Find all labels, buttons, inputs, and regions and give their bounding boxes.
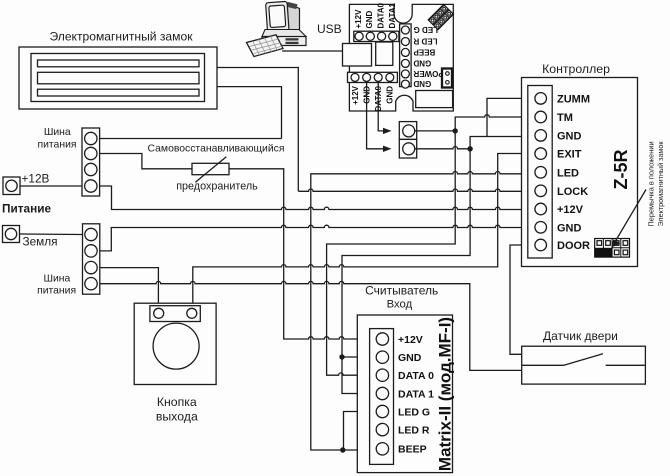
svg-text:Matrix-II (мод.MF-I): Matrix-II (мод.MF-I) [436, 317, 455, 471]
svg-text:DATA 0: DATA 0 [398, 370, 434, 382]
wire J2.GND down with arrow to plug X2 [367, 81, 384, 149]
exit button pusher [153, 323, 199, 369]
jumper note arrow [614, 190, 646, 244]
board edge connector J5 [442, 69, 452, 88]
wire bus1.c2 to fuse [100, 154, 192, 169]
svg-text:LED R: LED R [398, 424, 430, 436]
svg-text:+12V: +12V [354, 9, 363, 29]
wire +12V terminal to bus1 [20, 185, 82, 187]
svg-text:GND: GND [365, 11, 374, 29]
junction GND/X2 [467, 146, 472, 151]
svg-text:Шина: Шина [43, 274, 70, 285]
svg-text:Самовосстанавливающийся: Самовосстанавливающийся [148, 144, 285, 155]
controller Z-5R box [522, 78, 638, 267]
plug connector X2 (lower) [399, 139, 416, 158]
svg-text:DATA 1: DATA 1 [398, 388, 434, 400]
svg-text:LED G: LED G [398, 406, 430, 418]
computer (PC with monitor and keyboard) [247, 1, 307, 56]
controller pin labels [557, 93, 590, 252]
wire bus1.c1 rail [100, 138, 282, 140]
wire GND feed to controller GND [470, 137, 535, 149]
plug connector X1 (upper) [399, 122, 416, 140]
svg-text:Вход: Вход [387, 299, 413, 311]
svg-text:выхода: выхода [156, 409, 198, 423]
svg-text:LOCK: LOCK [557, 186, 588, 198]
svg-text:POWER: POWER [413, 69, 443, 78]
svg-text:Z-5R: Z-5R [611, 150, 631, 190]
USB adapter top pin header J1 [354, 31, 399, 41]
wire J2.DATA0 down with arrow to plug X1 [378, 81, 383, 131]
reader pin labels [398, 334, 434, 456]
svg-text:Электромагнитный замок: Электромагнитный замок [49, 30, 193, 44]
svg-text:+12V: +12V [398, 334, 423, 346]
svg-text:питания: питания [37, 140, 76, 151]
jumper block [595, 239, 630, 258]
power bus strip 2 [83, 224, 100, 294]
wire Zemlya terminal to bus2 [20, 233, 83, 236]
svg-text:GND: GND [398, 352, 422, 364]
right pin column J3 [400, 24, 412, 88]
junction TM/X1 [453, 128, 458, 133]
top header labels +12V GND DATA0 DATA1 [354, 2, 397, 28]
wire ZUMM wire [487, 98, 535, 136]
svg-text:DATA1: DATA1 [388, 2, 397, 28]
wire lock terminal B to power bus [217, 87, 282, 139]
wire X2 to GND [415, 146, 470, 148]
USB adapter board outline [349, 4, 453, 111]
wire LOCK rail [298, 189, 535, 191]
wire bus2.c3 to exit button [100, 268, 159, 306]
component U1 on board [376, 42, 393, 65]
svg-text:Питание: Питание [2, 202, 51, 216]
wire bus2.c2 to controller GND [100, 225, 535, 251]
svg-text:ZUMM: ZUMM [557, 93, 590, 105]
wire LED G to BEEP net [344, 412, 377, 451]
svg-text:+12V: +12V [351, 85, 360, 105]
svg-text:Кнопка: Кнопка [157, 395, 197, 409]
USB connector to computer [343, 44, 372, 67]
junction BEEP junction [340, 447, 345, 452]
svg-text:Контроллер: Контроллер [542, 62, 610, 76]
svg-text:+12V: +12V [557, 204, 584, 216]
wire computer to USB adapter [282, 50, 344, 52]
svg-text:GND: GND [413, 79, 431, 88]
Ground (Zemlya) terminal [3, 226, 20, 243]
wire bus2.c4 to door sensor [100, 281, 522, 370]
svg-text:LED: LED [557, 167, 579, 179]
svg-text:Шина: Шина [44, 127, 71, 138]
wire GND branch to DATA1 [342, 357, 376, 394]
exit button terminal strip [150, 306, 200, 322]
wire lock terminal A to LOCK rail [217, 68, 298, 192]
power bus strip 1 [82, 128, 100, 196]
wire exit button to controller EXIT [193, 154, 535, 307]
tilted programming connector J4 [428, 4, 453, 29]
svg-text:DOOR: DOOR [557, 240, 590, 252]
svg-text:Считыватель: Считыватель [365, 284, 438, 298]
svg-text:BEEP: BEEP [398, 444, 427, 456]
svg-text:GND: GND [557, 222, 582, 234]
fuse F1 [192, 157, 229, 183]
svg-text:GND: GND [557, 130, 582, 142]
svg-text:GND: GND [386, 86, 395, 104]
bottom header labels +12V GND DATA0 GND [351, 85, 395, 111]
reader Matrix-II box [357, 315, 452, 473]
svg-text:BEEP: BEEP [413, 47, 435, 56]
svg-text:предохранитель: предохранитель [176, 181, 258, 193]
junction reader GND branch [339, 354, 344, 359]
wire X1 to TM [415, 130, 456, 132]
USB socket component on board bottom-right [416, 91, 453, 108]
USB adapter bottom pin header J2 [348, 72, 398, 82]
svg-text:+12В: +12В [22, 172, 50, 186]
electromagnetic lock body [19, 47, 217, 109]
svg-text:питания: питания [37, 285, 76, 296]
svg-text:DATA0: DATA0 [377, 2, 386, 28]
door sensor switch [522, 354, 646, 366]
exit button box [134, 303, 216, 384]
svg-text:LED R: LED R [413, 37, 437, 46]
door sensor box [522, 346, 646, 384]
svg-text:Земля: Земля [23, 235, 58, 249]
svg-text:Датчик двери: Датчик двери [543, 329, 618, 343]
controller pin strip [528, 86, 552, 259]
svg-text:Электромагнитный замок: Электромагнитный замок [656, 141, 665, 227]
wire fuse to reader +12V [229, 169, 376, 339]
wire bus1 to +12V rail [100, 186, 535, 210]
svg-text:USB: USB [317, 22, 342, 36]
wire TM wire [327, 115, 535, 376]
svg-text:GND: GND [413, 58, 431, 67]
right column labels LED G / LED R / BEEP / GND / POWER / GND (upside down) [413, 25, 444, 88]
wire LED rail [311, 172, 535, 451]
svg-text:TM: TM [557, 112, 573, 124]
svg-text:Перемычка в положении: Перемычка в положении [647, 141, 656, 226]
wire DOOR wire to door sensor [510, 245, 535, 354]
wire GND feed down to reader [342, 149, 470, 357]
reader pin strip [370, 329, 394, 465]
+12V supply terminal [3, 177, 20, 195]
svg-text:EXIT: EXIT [557, 149, 582, 161]
